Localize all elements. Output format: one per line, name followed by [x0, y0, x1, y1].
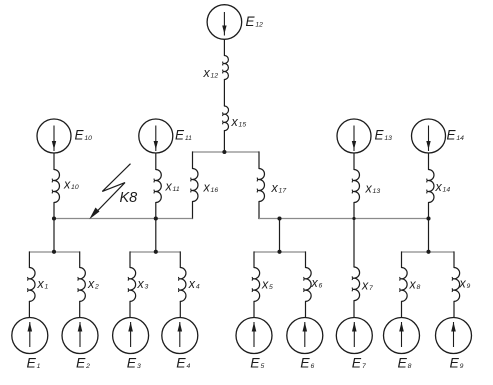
- source E14: [412, 119, 446, 153]
- wire fork E5-E6 right leg: [305, 251, 307, 267]
- wire x5 to E5: [253, 301, 255, 318]
- junction left bus / E11: [154, 216, 158, 220]
- right bus: [259, 218, 429, 220]
- source E9: [436, 318, 472, 354]
- source E8: [384, 318, 420, 354]
- reactor x9: [454, 268, 460, 302]
- wire top bus to x17: [258, 151, 260, 168]
- wire x15 to top bus: [223, 131, 225, 152]
- wire x16 to left bus: [192, 202, 194, 220]
- wire x7 to E7: [353, 301, 355, 318]
- reactor x17: [259, 169, 265, 202]
- wire x14 to bus: [428, 203, 430, 220]
- wire E12 to x12: [223, 39, 225, 55]
- wire x2 to E2: [79, 301, 81, 318]
- wire E11 to x11: [155, 153, 157, 170]
- junction fork E3-E4: [154, 250, 158, 254]
- junction fork E8-E9: [426, 250, 430, 254]
- source E13: [337, 119, 371, 153]
- svg-text:K8: K8: [120, 190, 138, 206]
- wire x4 to E4: [179, 301, 181, 318]
- wire fork E3-E4 left leg: [129, 251, 131, 267]
- wire E14 to x14: [428, 153, 430, 170]
- wire E10 to x10: [53, 153, 55, 170]
- junction right bus / E14: [426, 216, 430, 220]
- wire fork E1-E2 right leg: [79, 251, 81, 267]
- reactor x15: [224, 106, 228, 131]
- top bus node: [193, 151, 260, 153]
- wire right bus to fork E5-E6: [279, 219, 281, 253]
- reactor x5: [254, 268, 260, 302]
- wire top bus to x16: [192, 151, 194, 168]
- reactor x10: [54, 170, 60, 203]
- reactor x11: [156, 170, 162, 203]
- wire x17 to right bus: [258, 202, 260, 220]
- reactor x3: [130, 268, 136, 302]
- wire left bus to fork E3-E4: [155, 219, 157, 253]
- source E10: [37, 119, 71, 153]
- wire E13 to x13: [353, 153, 355, 170]
- junction top bus / E12: [222, 150, 226, 154]
- source E7: [336, 318, 372, 354]
- junction fork E5-E6: [277, 250, 281, 254]
- fork bus E3-E4: [130, 251, 180, 253]
- wire right bus to fork E8-E9: [428, 219, 430, 253]
- junction right bus / x13-x7: [352, 217, 355, 220]
- source E12: [207, 5, 242, 40]
- wire x12 to x15: [223, 80, 225, 107]
- wire x9 to E9: [453, 301, 455, 318]
- wire fork E1-E2 left leg: [28, 251, 30, 267]
- wire fork E3-E4 right leg: [179, 251, 181, 267]
- reactor x1: [29, 268, 35, 302]
- left bus: [54, 218, 193, 220]
- source E11: [139, 119, 173, 153]
- source E6: [287, 318, 323, 354]
- wire x6 to E6: [305, 301, 307, 318]
- wire x13 to bus: [353, 203, 355, 220]
- wire x3 to E3: [129, 301, 131, 318]
- source E3: [113, 318, 149, 354]
- junction right bus / fork E5-E6 feeder: [277, 216, 281, 220]
- wire right bus to x7: [353, 219, 355, 268]
- wire fork E8-E9 right leg: [453, 251, 455, 267]
- wire x10 to bus: [53, 203, 55, 220]
- wire x1 to E1: [28, 301, 30, 318]
- source E2: [62, 318, 98, 354]
- reactor x14: [429, 170, 435, 203]
- wire x8 to E8: [401, 301, 403, 318]
- reactor x12: [224, 56, 228, 80]
- source E5: [236, 318, 272, 354]
- reactor x6: [306, 268, 312, 302]
- source E1: [12, 318, 48, 354]
- fault lightning arrow K8: [93, 164, 131, 216]
- junction fork E1-E2: [52, 250, 56, 254]
- fork bus E5-E6: [254, 251, 306, 253]
- wire fork E8-E9 left leg: [401, 251, 403, 267]
- wire x11 to bus: [155, 203, 157, 220]
- reactor x7: [354, 267, 360, 301]
- fork bus E1-E2: [29, 251, 79, 253]
- junction left bus / E10: [52, 216, 56, 220]
- source E4: [162, 318, 198, 354]
- reactor x8: [402, 268, 408, 302]
- reactor x16: [193, 169, 199, 202]
- wire fork E5-E6 left leg: [253, 251, 255, 267]
- reactor x2: [80, 268, 86, 302]
- wire left bus to fork E1-E2: [53, 219, 55, 253]
- reactor x13: [354, 170, 360, 203]
- fork bus E8-E9: [402, 251, 455, 253]
- reactor x4: [180, 268, 186, 302]
